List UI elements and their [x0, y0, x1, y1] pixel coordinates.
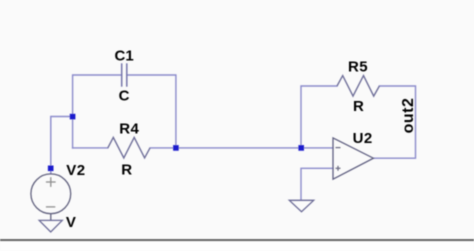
svg-text:R: R [121, 162, 132, 179]
svg-text:R: R [353, 98, 364, 115]
svg-text:U2: U2 [353, 130, 373, 147]
svg-text:V2: V2 [66, 162, 85, 179]
svg-text:C1: C1 [115, 48, 134, 65]
svg-text:R5: R5 [348, 59, 368, 76]
svg-text:C: C [119, 87, 130, 104]
svg-text:R4: R4 [119, 120, 139, 137]
svg-text:out2: out2 [400, 98, 417, 134]
svg-text:V: V [66, 214, 76, 231]
